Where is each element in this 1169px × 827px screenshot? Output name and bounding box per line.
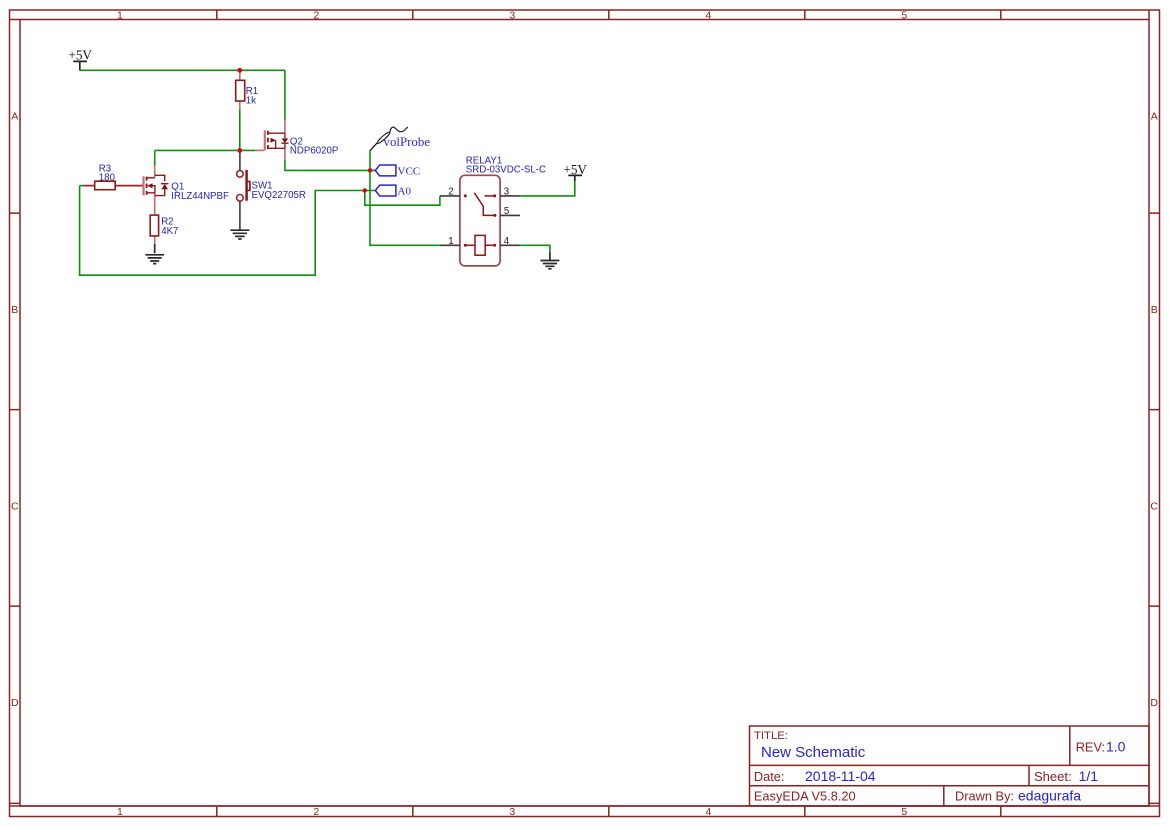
svg-text:3: 3 [509, 10, 515, 22]
svg-text:volProbe: volProbe [384, 135, 431, 149]
svg-text:1: 1 [117, 806, 123, 818]
svg-text:edagurafa: edagurafa [1018, 788, 1081, 804]
svg-text:3: 3 [509, 806, 515, 818]
svg-text:4: 4 [705, 806, 711, 818]
svg-text:2: 2 [448, 187, 453, 198]
svg-text:Sheet:: Sheet: [1034, 769, 1072, 784]
svg-text:1: 1 [448, 236, 453, 247]
svg-text:5: 5 [504, 206, 509, 217]
svg-text:3: 3 [504, 187, 509, 198]
svg-text:D: D [11, 697, 19, 709]
svg-text:B: B [11, 304, 18, 316]
svg-text:New Schematic: New Schematic [761, 744, 866, 761]
svg-text:1k: 1k [246, 95, 256, 106]
svg-text:NDP6020P: NDP6020P [290, 145, 338, 156]
svg-text:2018-11-04: 2018-11-04 [805, 768, 876, 784]
svg-text:1.0: 1.0 [1106, 739, 1126, 755]
svg-text:SRD-03VDC-SL-C: SRD-03VDC-SL-C [466, 165, 546, 176]
svg-text:Drawn By:: Drawn By: [955, 789, 1014, 804]
svg-text:2: 2 [313, 10, 319, 22]
svg-text:EVQ22705R: EVQ22705R [252, 190, 306, 201]
svg-text:C: C [11, 501, 19, 513]
svg-text:A0: A0 [398, 185, 412, 197]
svg-text:D: D [1150, 697, 1158, 709]
svg-text:Date:: Date: [754, 769, 785, 784]
svg-text:REV:: REV: [1076, 740, 1105, 755]
svg-text:4: 4 [504, 236, 510, 247]
svg-text:+5V: +5V [563, 162, 587, 177]
svg-text:1: 1 [117, 10, 123, 22]
svg-text:IRLZ44NPBF: IRLZ44NPBF [171, 191, 229, 202]
svg-text:B: B [1151, 304, 1158, 316]
svg-text:C: C [1150, 501, 1158, 513]
svg-text:2: 2 [313, 806, 319, 818]
svg-text:4: 4 [705, 10, 711, 22]
svg-text:VCC: VCC [398, 166, 421, 178]
svg-text:1/1: 1/1 [1079, 768, 1099, 784]
svg-text:+5V: +5V [68, 47, 92, 62]
svg-text:A: A [11, 110, 18, 122]
svg-text:TITLE:: TITLE: [754, 730, 788, 742]
svg-text:EasyEDA V5.8.20: EasyEDA V5.8.20 [754, 789, 856, 804]
svg-text:5: 5 [901, 806, 907, 818]
svg-text:A: A [1151, 110, 1158, 122]
svg-text:5: 5 [901, 10, 907, 22]
svg-text:180: 180 [99, 173, 116, 184]
svg-text:4K7: 4K7 [161, 226, 178, 237]
